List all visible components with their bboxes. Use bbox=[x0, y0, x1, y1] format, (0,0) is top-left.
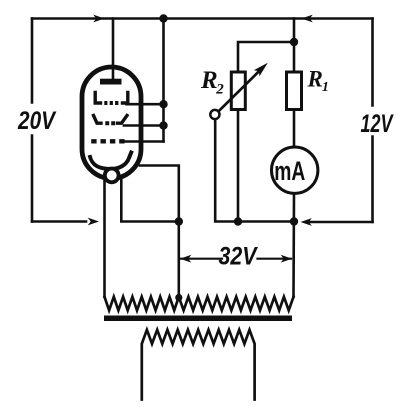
junction dot R2 top bbox=[290, 38, 298, 46]
32V dimension arrows bbox=[180, 255, 292, 263]
R1 bottom lead wire bbox=[293, 110, 296, 148]
wire left side 20V loop bbox=[31, 19, 34, 222]
resistor R1 body bbox=[287, 72, 302, 110]
wire bottom-left with arrow to heater bbox=[32, 220, 86, 223]
cathode bbox=[90, 153, 131, 170]
grid bus wire bbox=[162, 19, 165, 142]
R2 wiper lead wire bbox=[215, 120, 294, 222]
R2 bottom lead wire bbox=[237, 110, 240, 222]
grid g1 (dashed with end hooks) bbox=[95, 93, 128, 104]
R2 top lead wire bbox=[238, 42, 294, 72]
transformer primary winding bbox=[105, 297, 294, 311]
transformer core bbox=[104, 316, 292, 322]
junction dot grid bus g1 bbox=[159, 100, 167, 108]
grid g3 (dashes) bbox=[91, 139, 124, 143]
wire bottom-right with arrow (pointing left) bbox=[308, 221, 373, 224]
svg-text:12V: 12V bbox=[361, 110, 395, 138]
filament lead left wire (to transformer primary) bbox=[103, 177, 106, 297]
mA bottom lead wire bbox=[292, 194, 295, 297]
current arrow on top wire near R1 (pointing left) bbox=[302, 15, 313, 23]
junction dot top of grid bus bbox=[159, 14, 167, 22]
wire right side 12V loop bbox=[371, 19, 374, 223]
wire top bus bbox=[32, 17, 373, 20]
grid lead wire g2 bbox=[124, 124, 164, 127]
anode plate bbox=[100, 79, 122, 85]
junction dot grid bus g2 bbox=[159, 121, 167, 129]
svg-text:20V: 20V bbox=[17, 107, 57, 135]
tube V1 envelope bbox=[82, 67, 141, 179]
resistor R2 body bbox=[231, 72, 245, 110]
R2 wiper arrow bbox=[210, 63, 268, 119]
transformer secondary winding bbox=[142, 330, 255, 400]
junction dot mA line bottom wire bbox=[290, 217, 298, 225]
svg-text:32V: 32V bbox=[219, 243, 259, 271]
meter mA bbox=[272, 147, 318, 193]
grid lead wire g1 bbox=[127, 103, 164, 106]
grid lead wire g3 bbox=[124, 140, 163, 143]
cathode lead wire (to primary tap) bbox=[140, 166, 179, 297]
primary tap junction dot bbox=[175, 294, 182, 301]
current arrow on top wire near anode bbox=[93, 15, 104, 23]
junction dot heater/cathode node bbox=[175, 217, 183, 225]
grid g2 (dashed with slanted end hooks) bbox=[94, 116, 128, 124]
junction dot R2 bottom bbox=[234, 217, 242, 225]
filament lead right wire bbox=[121, 177, 179, 222]
anode lead wire bbox=[112, 19, 115, 81]
svg-text:mA: mA bbox=[274, 156, 305, 186]
R1 top lead wire bbox=[293, 19, 296, 73]
filament loop bbox=[105, 169, 119, 183]
